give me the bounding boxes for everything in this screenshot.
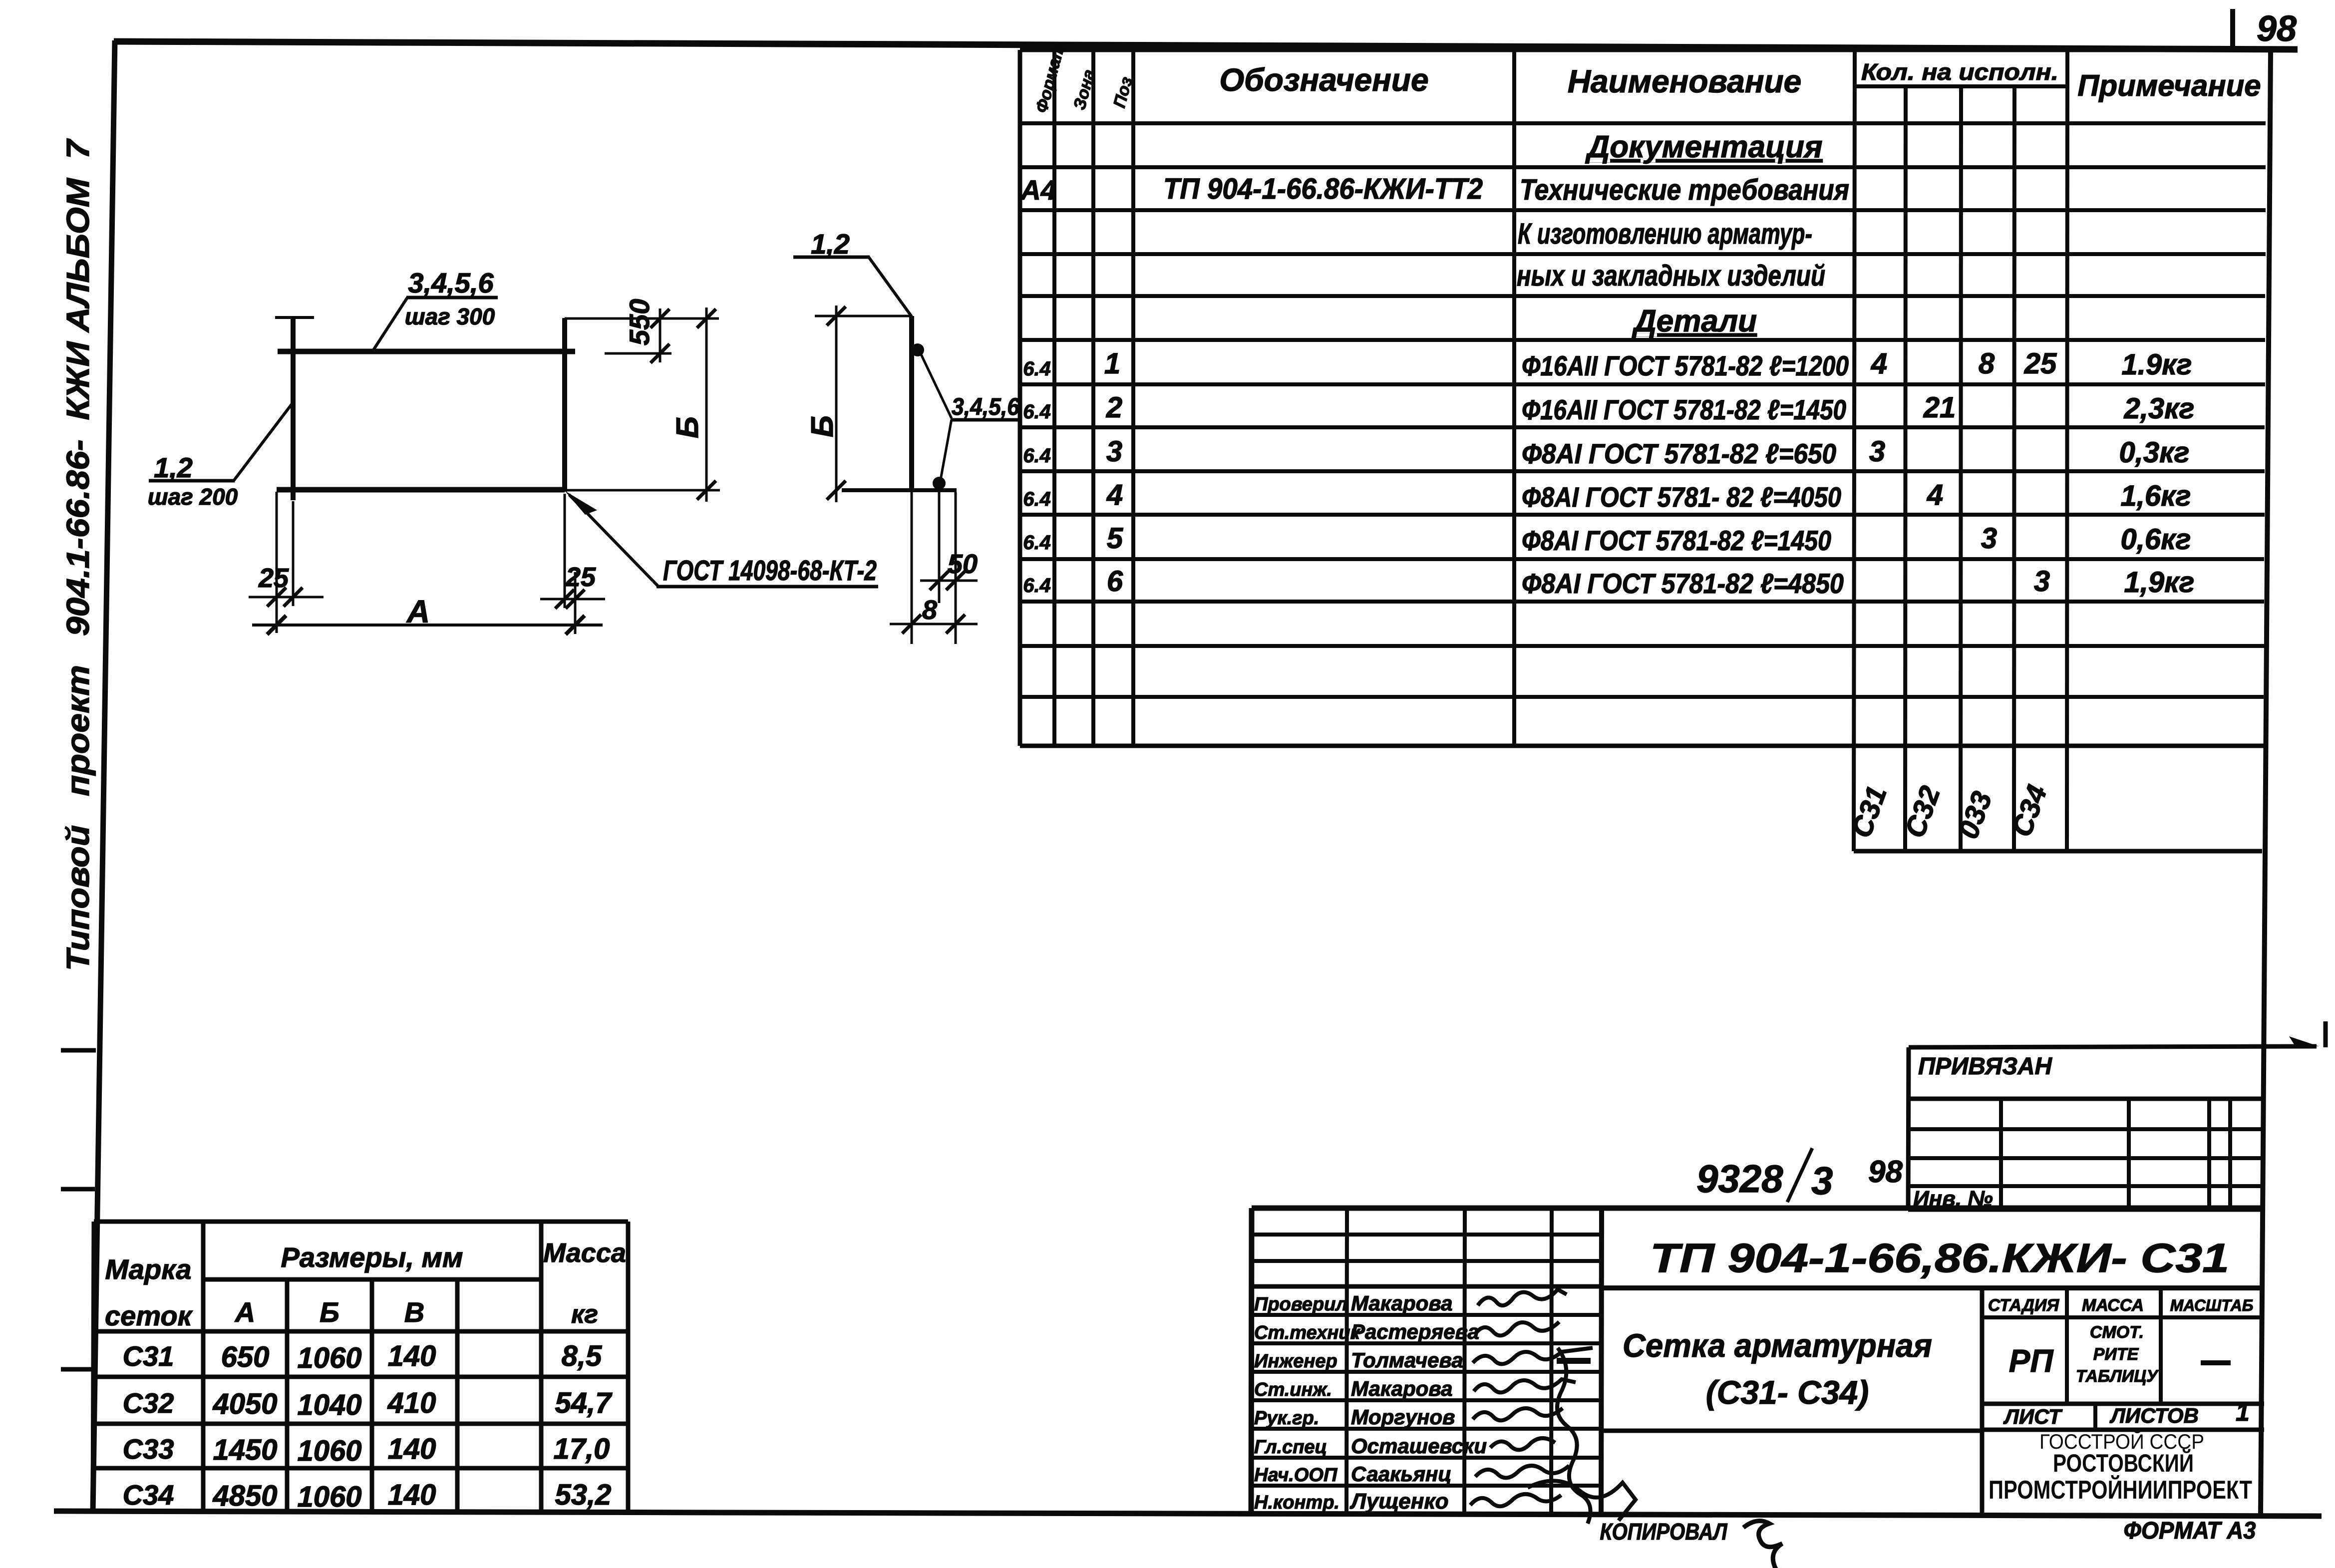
svg-text:кг: кг xyxy=(571,1300,598,1329)
svg-text:54,7: 54,7 xyxy=(555,1387,613,1419)
extension top xyxy=(815,315,912,317)
svg-text:Ф8АI ГОСТ 5781-82 ℓ=650: Ф8АI ГОСТ 5781-82 ℓ=650 xyxy=(1522,438,1836,469)
PRIVYAZAN block xyxy=(1908,1021,2326,1211)
svg-text:3,4,5,6: 3,4,5,6 xyxy=(952,394,1019,420)
dimension 550 line xyxy=(659,309,662,362)
leader to upper dot xyxy=(920,352,952,418)
svg-text:1060: 1060 xyxy=(297,1342,361,1374)
svg-text:Нач.ООП: Нач.ООП xyxy=(1254,1465,1337,1486)
bottom line xyxy=(842,488,957,492)
leader 1,2 xyxy=(234,402,293,481)
dimension A line xyxy=(252,624,603,627)
box left edge xyxy=(1908,1047,1909,1210)
svg-text:1060: 1060 xyxy=(297,1435,361,1467)
svg-text:3: 3 xyxy=(1981,522,1997,555)
doc number cell bottom xyxy=(1602,1285,2264,1290)
svg-text:Ст.техник: Ст.техник xyxy=(1254,1322,1361,1343)
column verticals xyxy=(201,1222,206,1514)
extensions below xyxy=(911,492,913,644)
border left xyxy=(93,40,115,1513)
signatures squiggles xyxy=(1470,1289,1636,1524)
svg-text:3: 3 xyxy=(2034,565,2050,598)
extension right 25 a xyxy=(564,494,566,608)
verticals xyxy=(1999,1099,2003,1210)
right edge tick xyxy=(2324,1021,2328,1047)
dimension 8 line xyxy=(890,623,978,626)
svg-text:ГОСТ 14098-68-КТ-2: ГОСТ 14098-68-КТ-2 xyxy=(663,555,877,587)
svg-text:РИТЕ: РИТЕ xyxy=(2093,1345,2139,1364)
sig row lines xyxy=(1252,1313,1602,1317)
svg-text:Ф8АI ГОСТ 5781- 82 ℓ=4050: Ф8АI ГОСТ 5781- 82 ℓ=4050 xyxy=(1522,481,1841,513)
svg-text:3: 3 xyxy=(1811,1159,1833,1203)
top-right sheet tick xyxy=(2230,9,2235,50)
svg-text:В: В xyxy=(404,1296,424,1328)
svg-text:2,3кг: 2,3кг xyxy=(2124,392,2195,425)
border top xyxy=(114,41,2298,49)
outline left xyxy=(1251,1208,1252,1513)
wire bottom longitudinal bar xyxy=(277,487,565,493)
name cell bottom xyxy=(1602,1429,1982,1433)
svg-text:98: 98 xyxy=(2257,9,2297,49)
svg-text:Саакьянц: Саакьянц xyxy=(1351,1462,1452,1486)
spec grid horizontals xyxy=(1020,48,2268,52)
box top line with arrow to sheet edge xyxy=(1909,1046,2317,1047)
svg-text:4850: 4850 xyxy=(212,1480,277,1512)
svg-text:2: 2 xyxy=(1106,391,1122,424)
svg-text:Лущенко: Лущенко xyxy=(1349,1489,1449,1514)
svg-text:ПРИВЯЗАН: ПРИВЯЗАН xyxy=(1918,1053,2052,1080)
svg-text:Гл.спец: Гл.спец xyxy=(1254,1437,1327,1458)
row lines xyxy=(93,1375,628,1379)
row lines xyxy=(1908,1127,2262,1131)
left margin vertical label xyxy=(60,138,96,971)
svg-text:Инженер: Инженер xyxy=(1254,1351,1337,1372)
archive number 9328/3 xyxy=(1696,1148,1903,1203)
wire left cross bar xyxy=(291,316,296,500)
svg-text:ТП 904-1-66,86.КЖИ- С31: ТП 904-1-66,86.КЖИ- С31 xyxy=(1650,1236,2229,1281)
svg-text:Обозначение: Обозначение xyxy=(1219,62,1428,98)
svg-text:8,5: 8,5 xyxy=(562,1340,602,1372)
wire vertical (items 1,2) xyxy=(909,316,914,490)
svg-text:Б: Б xyxy=(805,415,840,437)
svg-text:1: 1 xyxy=(2236,1398,2250,1426)
svg-text:410: 410 xyxy=(387,1387,436,1419)
leader to lower dot xyxy=(940,419,952,482)
svg-text:6.4: 6.4 xyxy=(1023,532,1051,554)
MARKA table bottom-left xyxy=(93,1222,628,1514)
extension left 25 b xyxy=(292,501,295,606)
svg-text:Макарова: Макарова xyxy=(1351,1377,1453,1400)
svg-text:РОСТОВСКИЙ: РОСТОВСКИЙ xyxy=(2053,1449,2194,1477)
dimension B fig1 line xyxy=(705,308,708,502)
svg-text:А: А xyxy=(406,594,430,629)
bottom margin notes xyxy=(1600,1518,2256,1568)
svg-text:Наименование: Наименование xyxy=(1568,63,1801,99)
svg-text:3: 3 xyxy=(1869,435,1885,468)
svg-text:ЛИСТОВ: ЛИСТОВ xyxy=(2109,1404,2199,1427)
svg-text:6.4: 6.4 xyxy=(1023,575,1051,597)
svg-text:6.4: 6.4 xyxy=(1023,358,1051,380)
svg-text:Растеряева: Растеряева xyxy=(1351,1320,1479,1343)
FIGURE 1 : mesh side elevation xyxy=(148,267,878,634)
svg-text:6.4: 6.4 xyxy=(1023,445,1051,467)
svg-text:8: 8 xyxy=(922,595,937,625)
svg-text:Сетка арматурная: Сетка арматурная xyxy=(1623,1327,1932,1364)
extension line mid right (top bar level) xyxy=(605,352,671,355)
extension right 25 b xyxy=(574,572,577,634)
svg-text:Проверил: Проверил xyxy=(1254,1294,1347,1315)
svg-text:К изготовлению арматур-: К изготовлению арматур- xyxy=(1518,218,1812,250)
spec grid verticals xyxy=(1018,50,1022,746)
svg-text:1,2: 1,2 xyxy=(154,452,193,483)
svg-text:Примечание: Примечание xyxy=(2077,69,2261,102)
svg-text:Размеры, мм: Размеры, мм xyxy=(281,1242,463,1273)
svg-text:(С31- С34): (С31- С34) xyxy=(1706,1374,1869,1411)
stamp header row xyxy=(1982,1315,2264,1319)
svg-text:Макарова: Макарова xyxy=(1351,1291,1453,1315)
svg-text:5: 5 xyxy=(1107,522,1123,555)
svg-text:Рук.гр.: Рук.гр. xyxy=(1254,1408,1319,1429)
svg-text:Кол. на исполн.: Кол. на исполн. xyxy=(1861,59,2058,85)
svg-text:1,6кг: 1,6кг xyxy=(2121,480,2191,512)
svg-text:Б: Б xyxy=(320,1296,339,1328)
large flourish xyxy=(1557,1348,1591,1524)
svg-text:21: 21 xyxy=(1923,391,1956,424)
svg-text:1: 1 xyxy=(1104,347,1120,380)
wire dot upper (3,4,5,6) xyxy=(911,343,924,356)
dimension B fig2 line xyxy=(835,306,838,502)
leader arrowhead at weld point xyxy=(565,491,597,515)
border right xyxy=(2261,52,2271,1514)
dash in row 3 xyxy=(1557,1358,1591,1364)
svg-text:98: 98 xyxy=(1868,1155,1903,1189)
fold mark 1 xyxy=(61,1048,96,1053)
svg-text:6.4: 6.4 xyxy=(1023,488,1051,510)
svg-text:ЛИСТ: ЛИСТ xyxy=(2003,1405,2063,1428)
list row bottom xyxy=(1982,1428,2264,1432)
dimension 25 left line xyxy=(249,596,324,599)
svg-text:1450: 1450 xyxy=(213,1434,277,1466)
svg-text:МАССА: МАССА xyxy=(2082,1296,2144,1315)
svg-text:ПРОМСТРОЙНИИПРОЕКТ: ПРОМСТРОЙНИИПРОЕКТ xyxy=(1989,1475,2252,1505)
svg-text:сеток: сеток xyxy=(105,1300,193,1331)
border bottom xyxy=(54,1511,2322,1516)
svg-text:Ф16АII ГОСТ 5781-82 ℓ=1450: Ф16АII ГОСТ 5781-82 ℓ=1450 xyxy=(1522,394,1846,425)
svg-text:6: 6 xyxy=(1107,565,1123,598)
svg-text:0,6кг: 0,6кг xyxy=(2121,523,2191,556)
svg-text:4: 4 xyxy=(1927,479,1943,511)
svg-text:1,2: 1,2 xyxy=(811,228,850,260)
svg-text:53,2: 53,2 xyxy=(555,1479,612,1511)
leader 1,2 fig2 xyxy=(869,257,912,316)
svg-text:шаг 300: шаг 300 xyxy=(405,304,495,329)
копировал signature xyxy=(1743,1521,1792,1568)
dimension 50 line xyxy=(920,580,978,582)
svg-text:25: 25 xyxy=(2024,347,2057,380)
header bottom xyxy=(1908,1097,2263,1101)
svg-text:ТП 904-1-66.86-КЖИ-ТТ2: ТП 904-1-66.86-КЖИ-ТТ2 xyxy=(1163,173,1483,205)
spec tail bottom xyxy=(1854,849,2262,854)
extension line top right xyxy=(565,317,719,320)
TITLE BLOCK xyxy=(1251,1208,2264,1524)
svg-text:С34: С34 xyxy=(123,1479,174,1511)
svg-text:КОПИРОВАЛ: КОПИРОВАЛ xyxy=(1600,1519,1728,1545)
svg-text:8: 8 xyxy=(1979,347,1995,380)
svg-text:4: 4 xyxy=(1871,347,1887,380)
svg-text:ФОРМАТ А3: ФОРМАТ А3 xyxy=(2124,1518,2256,1544)
svg-text:1040: 1040 xyxy=(297,1389,361,1421)
wire dot lower (3,4,5,6) xyxy=(933,477,946,490)
svg-text:С31: С31 xyxy=(123,1340,174,1372)
svg-text:А: А xyxy=(234,1296,255,1328)
svg-text:Типовой проект 904.1-66.86: Типовой проект 904.1-66.86- КЖИ АЛЬБОМ 7 xyxy=(60,138,96,971)
svg-text:140: 140 xyxy=(388,1479,436,1511)
svg-text:25: 25 xyxy=(258,563,289,593)
wire top longitudinal bar xyxy=(278,349,575,354)
svg-text:МАСШТАБ: МАСШТАБ xyxy=(2170,1296,2254,1314)
svg-text:Осташевски: Осташевски xyxy=(1351,1434,1487,1458)
svg-text:650: 650 xyxy=(221,1341,270,1373)
svg-text:Детали: Детали xyxy=(1632,304,1757,338)
svg-text:Б: Б xyxy=(670,416,705,438)
main divider xyxy=(1601,1208,1602,1513)
fold mark 3 xyxy=(61,1367,94,1372)
svg-text:С32: С32 xyxy=(123,1387,174,1419)
svg-text:1060: 1060 xyxy=(297,1481,361,1513)
svg-text:Масса: Масса xyxy=(543,1238,626,1268)
extension line bottom right xyxy=(565,489,720,492)
fold mark 2 xyxy=(61,1187,95,1192)
svg-text:Ф16АII ГОСТ 5781-82 ℓ=1200: Ф16АII ГОСТ 5781-82 ℓ=1200 xyxy=(1522,350,1849,381)
svg-text:50: 50 xyxy=(948,549,978,579)
wire right cross bar xyxy=(562,318,567,492)
svg-text:А4: А4 xyxy=(1019,174,1056,206)
svg-text:550: 550 xyxy=(624,299,655,345)
svg-text:9328: 9328 xyxy=(1696,1157,1783,1201)
svg-text:Ф8АI ГОСТ 5781-82 ℓ=4850: Ф8АI ГОСТ 5781-82 ℓ=4850 xyxy=(1522,568,1844,599)
svg-text:6.4: 6.4 xyxy=(1023,401,1051,423)
FIGURE 2 : mesh end view xyxy=(793,228,1022,644)
svg-text:Документация: Документация xyxy=(1585,130,1822,164)
upper small rows xyxy=(1252,1233,1602,1237)
svg-text:0,3кг: 0,3кг xyxy=(2119,436,2190,469)
dimension 25 right line xyxy=(540,598,605,601)
svg-text:СТАДИЯ: СТАДИЯ xyxy=(1988,1296,2060,1315)
svg-text:Технические требования: Технические требования xyxy=(1520,174,1849,206)
svg-text:шаг 200: шаг 200 xyxy=(148,484,238,510)
header split xyxy=(203,1277,541,1282)
svg-text:ных и закладных изделий: ных и закладных изделий xyxy=(1517,260,1825,292)
svg-text:СМОТ.: СМОТ. xyxy=(2090,1323,2144,1342)
svg-text:ТАБЛИЦУ: ТАБЛИЦУ xyxy=(2076,1367,2159,1386)
svg-text:17,0: 17,0 xyxy=(554,1433,610,1465)
leader 3456 xyxy=(371,298,407,353)
svg-text:С33: С33 xyxy=(123,1433,174,1465)
outline top xyxy=(1252,1206,2264,1211)
svg-text:25: 25 xyxy=(565,562,596,592)
svg-text:Ф8АI ГОСТ 5781-82 ℓ=1450: Ф8АI ГОСТ 5781-82 ℓ=1450 xyxy=(1522,525,1831,556)
extension left 25 a xyxy=(276,492,278,633)
stamp values bottom xyxy=(1982,1402,2264,1406)
svg-text:Н.контр.: Н.контр. xyxy=(1254,1492,1339,1513)
svg-text:Марка: Марка xyxy=(105,1254,192,1285)
svg-text:4: 4 xyxy=(1106,479,1123,511)
sig column lines xyxy=(1346,1208,1347,1513)
outline xyxy=(94,1220,628,1224)
tick at top of left cross bar xyxy=(275,316,314,319)
svg-text:3: 3 xyxy=(1106,435,1122,468)
svg-text:Ст.инж.: Ст.инж. xyxy=(1254,1379,1332,1400)
svg-text:Толмачева: Толмачева xyxy=(1351,1348,1463,1372)
svg-text:3,4,5,6: 3,4,5,6 xyxy=(408,267,494,299)
svg-text:140: 140 xyxy=(388,1340,436,1372)
svg-text:1,9кг: 1,9кг xyxy=(2124,566,2195,599)
svg-text:4050: 4050 xyxy=(212,1388,277,1420)
svg-text:140: 140 xyxy=(388,1433,436,1465)
name/stamp divider xyxy=(1980,1288,1985,1513)
svg-text:1.9кг: 1.9кг xyxy=(2122,348,2192,381)
SPECIFICATION TABLE top-right xyxy=(1019,41,2268,851)
svg-text:Моргунов: Моргунов xyxy=(1351,1405,1455,1429)
svg-text:РП: РП xyxy=(2009,1343,2054,1379)
